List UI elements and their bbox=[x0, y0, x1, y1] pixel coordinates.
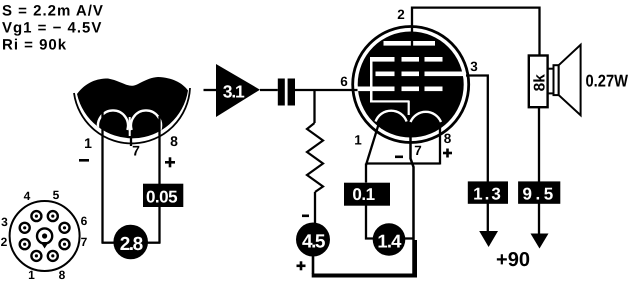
bottom wire bbox=[312, 240, 415, 276]
socket pin numbers bbox=[1, 188, 88, 282]
speaker driver bbox=[548, 65, 559, 95]
battery 1.4 right stub bbox=[405, 237, 414, 239]
eye pin 8 wire bbox=[158, 116, 160, 243]
arrow to +90 (left) bbox=[479, 231, 498, 247]
svg-text:8k: 8k bbox=[532, 74, 549, 92]
svg-text:8: 8 bbox=[59, 268, 66, 282]
svg-text:4: 4 bbox=[24, 189, 31, 203]
lead 0.1 to battery 1.4 bbox=[366, 204, 374, 239]
battery 1.4 bbox=[373, 223, 406, 256]
svg-text:S = 2.2m A/V: S = 2.2m A/V bbox=[2, 3, 104, 20]
anode bar bbox=[384, 41, 436, 46]
heater wire pins 1-8 bbox=[366, 162, 440, 164]
svg-text:0.1: 0.1 bbox=[352, 185, 374, 204]
magic eye indicator display bbox=[74, 77, 190, 143]
svg-text:1: 1 bbox=[28, 268, 35, 282]
stub 2.8 to pin8 bbox=[146, 242, 161, 244]
stub pin1 to 2.8 bbox=[102, 242, 116, 244]
eye pin 7 stub bbox=[130, 138, 132, 146]
svg-text:5: 5 bbox=[53, 188, 60, 202]
tube minus bbox=[395, 156, 403, 159]
cathode center lead bbox=[408, 101, 410, 115]
socket pins bbox=[20, 211, 70, 261]
wire amp output bbox=[260, 89, 278, 91]
svg-text:Vg1 = − 4.5V: Vg1 = − 4.5V bbox=[2, 20, 102, 37]
svg-text:3.1: 3.1 bbox=[223, 81, 245, 101]
tube pin 2 wire bbox=[412, 8, 540, 56]
eye pin 1 wire bbox=[101, 112, 103, 243]
plus label bbox=[297, 261, 306, 270]
tube pin 1 wire bbox=[366, 123, 379, 165]
capacitor C bbox=[278, 79, 295, 106]
tube inner electrode disc bbox=[358, 32, 464, 138]
svg-text:2: 2 bbox=[397, 7, 405, 22]
svg-text:9.5: 9.5 bbox=[523, 185, 557, 204]
label 1.3 bbox=[468, 181, 508, 203]
wire C to tube grid pin6 bbox=[295, 89, 358, 91]
tube envelope bbox=[353, 27, 469, 143]
resistor lead to battery bbox=[314, 192, 316, 223]
svg-text:6: 6 bbox=[340, 74, 348, 89]
tube pin 8 wire bbox=[439, 125, 441, 165]
svg-text:4.5: 4.5 bbox=[302, 232, 326, 253]
svg-text:3: 3 bbox=[470, 59, 478, 74]
svg-text:6: 6 bbox=[81, 214, 88, 228]
junction to resistor bbox=[313, 90, 315, 123]
arrow to +90 (right) bbox=[531, 234, 549, 249]
label 9.5 bbox=[518, 181, 560, 203]
output transformer 8k bbox=[529, 56, 549, 108]
svg-text:8: 8 bbox=[444, 131, 452, 146]
tube plus bbox=[443, 149, 452, 158]
svg-text:1: 1 bbox=[354, 133, 362, 148]
battery 4.5 bbox=[296, 223, 330, 257]
label 0.05 bbox=[143, 184, 183, 207]
svg-text:0.05: 0.05 bbox=[146, 188, 177, 207]
svg-text:Ri = 90k: Ri = 90k bbox=[2, 37, 67, 54]
eye plus bbox=[165, 157, 175, 167]
label 0.1 bbox=[344, 183, 390, 206]
svg-text:+90: +90 bbox=[496, 249, 530, 271]
tube pin 7 wire bbox=[411, 130, 414, 276]
backbone link to cathode bbox=[370, 100, 410, 102]
grid row 1 bbox=[372, 57, 443, 62]
grid lead down bbox=[365, 164, 367, 183]
socket diagram bbox=[10, 201, 80, 271]
annotation tube parameters bbox=[2, 3, 104, 54]
svg-text:2.8: 2.8 bbox=[120, 234, 143, 255]
cathode arcs bbox=[376, 111, 441, 122]
battery 2.8 bbox=[113, 225, 148, 260]
svg-text:3: 3 bbox=[1, 215, 8, 229]
svg-text:7: 7 bbox=[81, 235, 88, 249]
minus label bbox=[302, 215, 309, 218]
svg-text:0.27W: 0.27W bbox=[586, 72, 629, 91]
svg-text:1.4: 1.4 bbox=[377, 231, 402, 252]
svg-text:1: 1 bbox=[84, 135, 92, 151]
grid row 3 (control grid to pin 6) bbox=[358, 87, 443, 92]
svg-text:7: 7 bbox=[132, 143, 140, 159]
resistor R bbox=[307, 123, 323, 192]
svg-text:7: 7 bbox=[414, 143, 422, 158]
grid row 2 bbox=[376, 72, 465, 77]
svg-text:8: 8 bbox=[170, 133, 178, 149]
grid backbone bbox=[370, 57, 373, 101]
wire amp input bbox=[204, 89, 217, 91]
eye minus bbox=[79, 159, 89, 162]
svg-text:2: 2 bbox=[1, 235, 8, 249]
battery stub to bottom wire bbox=[312, 256, 315, 274]
wire 8k to arrow bbox=[538, 106, 540, 237]
amplifier gain 3.1 bbox=[216, 64, 260, 117]
tube pin 3 wire bbox=[466, 76, 488, 235]
speaker horn bbox=[559, 45, 581, 115]
svg-text:1.3: 1.3 bbox=[473, 185, 503, 204]
